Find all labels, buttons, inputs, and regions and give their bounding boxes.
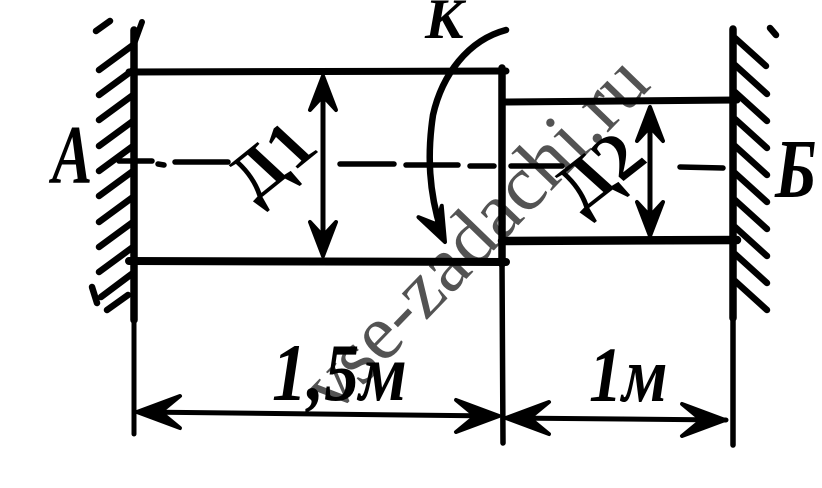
D2 arrow top head xyxy=(637,107,663,141)
dimension text 1m xyxy=(589,332,668,418)
svg-text:1,5м: 1,5м xyxy=(272,328,407,419)
step line (section boundary + extension) xyxy=(502,68,503,443)
shaft section 1 top line xyxy=(129,71,506,72)
dim 1m left arrowhead xyxy=(506,402,549,434)
svg-text:1м: 1м xyxy=(589,332,668,418)
label B (Cyrillic Б) xyxy=(774,123,816,216)
K pointer arc xyxy=(430,30,506,230)
D2 arrow bottom head xyxy=(637,202,663,236)
svg-text:А: А xyxy=(49,108,93,201)
left wall line (support A) xyxy=(134,22,142,434)
dim 1,5m left arrowhead xyxy=(137,396,180,428)
shaft section 1 bottom line xyxy=(129,261,506,262)
svg-text:К: К xyxy=(424,0,467,51)
watermark vse-zadachi.ru xyxy=(284,38,665,428)
right wall hatching xyxy=(735,28,776,310)
K arc arrowhead xyxy=(418,206,456,248)
diameter arrow D2 line xyxy=(648,112,653,231)
label D1 (rotated) xyxy=(199,112,337,213)
D1 arrow bottom head xyxy=(310,222,336,256)
dim 1,5m right arrowhead xyxy=(456,400,499,432)
shaft section 2 top line xyxy=(502,100,737,102)
right wall line (support B) xyxy=(729,29,737,445)
dimension text 1,5m xyxy=(272,328,407,419)
label K xyxy=(424,0,467,51)
svg-text:Д1: Д1 xyxy=(199,112,337,213)
dimension line 1,5m xyxy=(140,412,497,416)
centerline (axis) xyxy=(119,161,723,168)
diameter arrow D1 xyxy=(321,82,326,250)
label A xyxy=(49,108,93,201)
shaft section 2 bottom line xyxy=(502,240,737,241)
label D2 (rotated) xyxy=(524,122,667,223)
svg-text:Б: Б xyxy=(774,123,816,216)
dimension line 1m xyxy=(508,418,726,420)
dim 1m right arrowhead xyxy=(682,404,725,436)
left wall hatching xyxy=(92,21,133,310)
D1 arrow top head xyxy=(310,76,336,110)
